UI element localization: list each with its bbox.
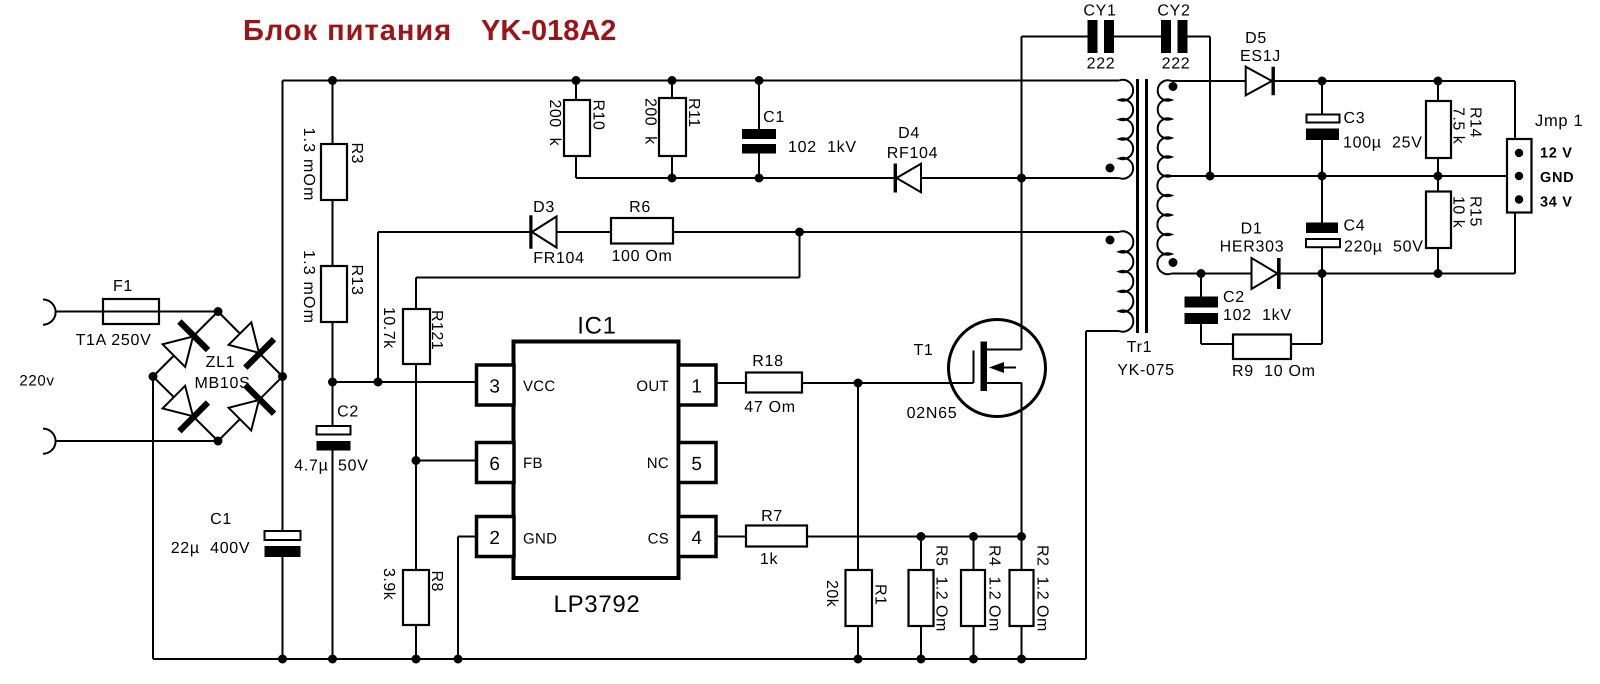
svg-text:34 V: 34 V [1540,195,1573,211]
svg-text:R121: R121 [428,310,445,350]
svg-text:R10: R10 [590,100,607,131]
svg-text:FR104: FR104 [533,250,585,267]
svg-text:5: 5 [691,454,702,475]
svg-text:R4 1.2 Om: R4 1.2 Om [986,545,1003,632]
svg-text:RF104: RF104 [887,145,939,162]
svg-text:T1A 250V: T1A 250V [76,332,152,349]
svg-text:D4: D4 [898,125,920,142]
svg-text:HER303: HER303 [1220,239,1285,256]
svg-text:102 1kV: 102 1kV [1223,307,1292,324]
svg-text:20k: 20k [823,580,840,608]
svg-text:R1: R1 [872,584,889,605]
svg-text:C2: C2 [1223,289,1245,306]
svg-text:10 k: 10 k [1450,196,1467,229]
svg-text:12 V: 12 V [1540,146,1573,162]
svg-text:GND: GND [523,531,557,548]
svg-text:R7: R7 [761,508,783,525]
svg-text:R15: R15 [1467,196,1484,227]
svg-text:R2 1.2 Om: R2 1.2 Om [1034,545,1051,632]
svg-text:10.7k: 10.7k [380,307,397,349]
svg-text:ES1J: ES1J [1240,48,1281,65]
svg-text:220v: 220v [19,373,54,390]
svg-text:ZL1: ZL1 [206,354,236,371]
svg-text:222: 222 [1087,56,1116,73]
svg-text:T1: T1 [913,342,933,359]
svg-text:OUT: OUT [636,378,669,395]
svg-text:50V: 50V [338,458,369,475]
svg-text:D1: D1 [1241,221,1263,238]
svg-text:F1: F1 [113,278,133,295]
svg-text:NC: NC [647,455,669,472]
svg-text:4.7µ: 4.7µ [294,458,328,475]
svg-text:C2: C2 [337,404,359,421]
svg-text:CS: CS [648,531,669,548]
svg-text:MB10S: MB10S [195,375,251,392]
svg-text:FB: FB [523,455,543,472]
svg-text:47 Om: 47 Om [744,399,796,416]
svg-text:Jmp 1: Jmp 1 [1535,112,1583,130]
svg-text:1.3 mOm: 1.3 mOm [300,250,317,324]
svg-text:102 1kV: 102 1kV [788,139,857,156]
svg-text:1k: 1k [760,551,779,568]
svg-text:2: 2 [489,528,500,549]
svg-text:Блок питания: Блок питания [243,15,452,47]
svg-text:4: 4 [691,528,702,549]
svg-text:200 k: 200 k [642,98,659,145]
svg-text:7.5 k: 7.5 k [1450,107,1467,145]
svg-text:R5 1.2 Om: R5 1.2 Om [933,545,950,632]
svg-text:CY2: CY2 [1157,3,1190,20]
svg-text:1.3 mOm: 1.3 mOm [300,128,317,202]
svg-text:C1: C1 [210,511,232,528]
svg-text:220µ 50V: 220µ 50V [1344,239,1424,256]
svg-text:6: 6 [489,454,500,475]
svg-text:R11: R11 [685,98,702,128]
svg-text:D5: D5 [1245,30,1267,47]
svg-text:1: 1 [691,377,702,398]
svg-text:R13: R13 [348,265,365,296]
svg-text:R3: R3 [348,143,365,164]
svg-text:R9 10 Om: R9 10 Om [1232,363,1316,380]
svg-text:C3: C3 [1344,110,1366,127]
svg-text:02N65: 02N65 [907,405,958,422]
svg-text:100µ 25V: 100µ 25V [1343,135,1423,152]
svg-text:Tr1: Tr1 [1127,339,1153,356]
svg-text:VCC: VCC [523,378,556,395]
svg-text:R18: R18 [752,353,783,370]
svg-text:222: 222 [1162,56,1191,73]
svg-text:C1: C1 [763,109,785,126]
svg-text:CY1: CY1 [1083,3,1116,20]
svg-text:YK-018A2: YK-018A2 [481,15,616,47]
svg-text:D3: D3 [533,199,555,216]
svg-text:22µ 400V: 22µ 400V [171,540,251,557]
svg-text:200 k: 200 k [546,100,563,147]
svg-text:3.9k: 3.9k [380,568,397,601]
svg-text:YK-075: YK-075 [1117,362,1175,379]
svg-text:IC1: IC1 [577,313,616,340]
svg-text:LP3792: LP3792 [554,591,641,618]
svg-text:R8: R8 [428,571,445,592]
svg-text:100 Om: 100 Om [611,248,672,265]
svg-text:R14: R14 [1467,107,1484,138]
svg-text:GND: GND [1540,170,1574,186]
svg-text:3: 3 [489,377,500,398]
svg-text:C4: C4 [1344,218,1366,235]
svg-text:R6: R6 [629,199,651,216]
